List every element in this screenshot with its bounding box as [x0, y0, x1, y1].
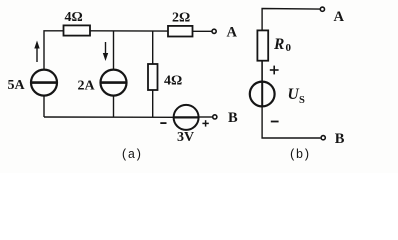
svg-text:5A: 5A [8, 78, 26, 93]
terminal B (b) [321, 136, 325, 140]
svg-text:3V: 3V [177, 130, 194, 145]
svg-text:4Ω: 4Ω [65, 10, 83, 25]
svg-text:2Ω: 2Ω [172, 11, 190, 26]
svg-text:4Ω: 4Ω [164, 74, 182, 89]
svg-text:B: B [228, 110, 238, 126]
polarity plus (3V) [202, 120, 208, 126]
wire to terminal A [193, 30, 212, 32]
svg-text:(b): (b) [289, 148, 310, 162]
terminal A (b) [320, 7, 324, 11]
svg-text:R: R [273, 36, 284, 53]
resistor 4Ω top [64, 25, 91, 35]
wire top-left corner of (a) [44, 31, 64, 70]
svg-text:U: U [288, 86, 300, 103]
arrow 2A direction (down) [103, 42, 108, 61]
svg-text:A: A [334, 9, 345, 25]
wire 4Ω branch bottom [152, 90, 154, 117]
resistor R0 [257, 30, 268, 60]
voltage source 3V [174, 105, 199, 130]
resistor 4Ω vertical [148, 64, 158, 90]
wire 4Ω branch top [152, 31, 154, 64]
svg-text:2A: 2A [78, 79, 96, 94]
wire top rail middle [90, 30, 168, 32]
svg-text:A: A [227, 24, 238, 40]
wire 2A branch top [113, 31, 115, 70]
wire R0 to source [261, 61, 263, 82]
wire 3V to terminal B [199, 116, 212, 118]
wire top of (b) [262, 9, 320, 32]
svg-text:0: 0 [286, 42, 292, 54]
svg-text:B: B [335, 131, 345, 147]
voltage source US [250, 82, 275, 107]
current source 5A [31, 70, 57, 117]
resistor 2Ω [168, 26, 193, 37]
svg-text:S: S [299, 95, 305, 106]
current source 2A [101, 70, 127, 117]
wire bottom rail [44, 116, 174, 118]
svg-text:(a): (a) [121, 148, 142, 162]
polarity minus (US) [271, 121, 279, 123]
terminal A (a) [212, 29, 216, 33]
wire bottom of (b) [262, 106, 320, 138]
polarity minus (3V) [160, 122, 166, 124]
arrow 5A direction (up) [34, 41, 39, 63]
polarity plus (US) [270, 66, 279, 75]
terminal B (a) [213, 115, 217, 119]
